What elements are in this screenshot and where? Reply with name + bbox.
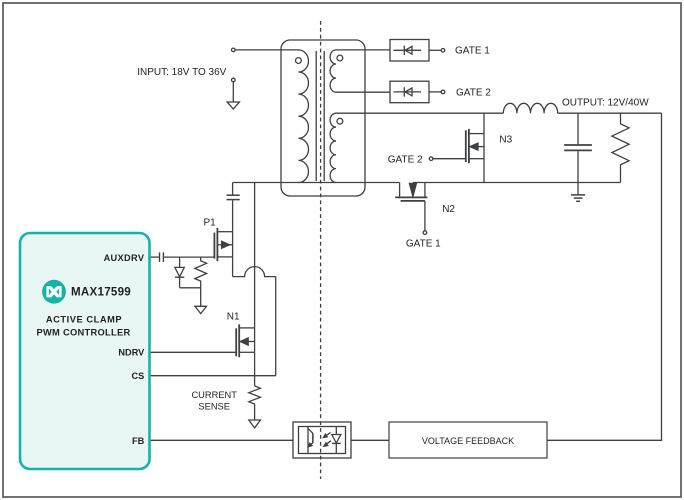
- svg-text:PWM CONTROLLER: PWM CONTROLLER: [36, 328, 130, 338]
- svg-text:AUXDRV: AUXDRV: [104, 253, 145, 263]
- transistor N2 (sync rectifier, rotated): [399, 183, 401, 197]
- wire: AUXDRV to P1 gate: [164, 256, 214, 258]
- wire: secondary2 top rail to inductor: [336, 112, 503, 114]
- svg-text:N3: N3: [499, 134, 512, 145]
- primary polarity dot: [296, 58, 302, 64]
- svg-text:FB: FB: [132, 436, 145, 446]
- wire: FB to optocoupler: [150, 439, 294, 441]
- transformer secondary winding 1: [330, 50, 336, 92]
- wire: hop down to CS node: [275, 277, 277, 376]
- transistor N1 (main switch): [239, 327, 254, 329]
- wire: N2 gate lead: [424, 201, 426, 231]
- input terminal: [232, 48, 236, 52]
- secondary1 polarity dot: [337, 55, 343, 61]
- wire: gate driver 2 to terminal: [429, 91, 441, 93]
- ground (input): [227, 102, 239, 109]
- ground (output, earth style): [571, 194, 585, 196]
- diode D1 in gate driver 1: [394, 49, 422, 51]
- diode D2 in gate driver 2: [394, 91, 422, 93]
- GATE 2 terminal: [441, 90, 445, 94]
- secondary2 polarity dot: [337, 118, 343, 124]
- wire: feedback loop right side down to voltage feedback: [547, 113, 662, 440]
- transformer primary winding: [299, 50, 309, 183]
- transformer T1 outline: [281, 40, 365, 196]
- svg-text:P1: P1: [204, 217, 217, 228]
- isolation boundary (dashed): [320, 21, 322, 479]
- wire: gate driver 1 to terminal: [429, 49, 441, 51]
- wire: P1 source with hop over N1 drain line: [233, 267, 276, 277]
- svg-text:INPUT: 18V TO 36V: INPUT: 18V TO 36V: [137, 67, 226, 78]
- svg-text:N1: N1: [227, 311, 240, 322]
- GATE 1 terminal: [441, 49, 445, 53]
- wire: inductor to output corner: [558, 112, 662, 114]
- svg-text:CURRENT: CURRENT: [191, 390, 237, 400]
- svg-text:GATE 1: GATE 1: [455, 46, 490, 57]
- svg-text:NDRV: NDRV: [118, 348, 145, 358]
- svg-text:OUTPUT: 12V/40W: OUTPUT: 12V/40W: [562, 97, 649, 108]
- svg-text:VOLTAGE FEEDBACK: VOLTAGE FEEDBACK: [422, 436, 514, 446]
- wire: CS line: [150, 375, 276, 377]
- inductor L1: [503, 103, 557, 113]
- diode D3: [179, 257, 181, 267]
- wire: optocoupler to voltage feedback box: [351, 439, 389, 441]
- transformer core bars: [315, 51, 317, 181]
- svg-text:ACTIVE CLAMP: ACTIVE CLAMP: [46, 315, 122, 325]
- wire: N1 drain up to primary rail: [254, 183, 256, 328]
- resistor R-load: [612, 113, 629, 182]
- capacitor C2 (AUXDRV coupling): [150, 256, 159, 258]
- resistor R2 (current sense): [249, 386, 261, 420]
- svg-text:GATE 2: GATE 2: [388, 155, 423, 166]
- svg-text:SENSE: SENSE: [198, 402, 230, 412]
- ground (current sense): [249, 420, 261, 428]
- wire: NDRV to N1 gate: [150, 351, 237, 353]
- voltage feedback block: [389, 422, 547, 458]
- gate driver box 2: [390, 81, 429, 103]
- input ground terminal: [232, 78, 236, 82]
- wire: bottom rail right of N2: [413, 182, 621, 184]
- transistor P1 (active clamp): [217, 231, 232, 233]
- svg-text:GATE 1: GATE 1: [406, 239, 441, 250]
- capacitor C-out: [577, 113, 579, 144]
- Maxim logo: [42, 280, 66, 304]
- wire: secondary1 bottom pin to gate driver 2: [336, 91, 390, 93]
- wire: primary/secondary bottom rail left of N2: [233, 182, 400, 184]
- wire: N3 gate lead: [433, 158, 466, 160]
- wire: diode bottom to resistor bottom: [180, 287, 201, 289]
- ground (gate network): [195, 306, 207, 313]
- MAX17599 controller block: [20, 233, 150, 469]
- gate driver box 1: [390, 40, 429, 62]
- GATE 1 terminal (N2 gate): [423, 231, 427, 235]
- wire: input to primary top: [235, 49, 299, 51]
- transformer secondary winding 2: [330, 113, 336, 182]
- svg-text:GATE 2: GATE 2: [456, 88, 491, 99]
- resistor R1 (P1 gate): [195, 257, 207, 306]
- svg-text:MAX17599: MAX17599: [71, 285, 131, 298]
- svg-text:CS: CS: [132, 371, 145, 381]
- transistor N3 (sync rectifier): [483, 113, 485, 133]
- GATE 2 terminal (N3 gate): [429, 157, 433, 161]
- optocoupler U2: [293, 422, 351, 458]
- svg-text:N2: N2: [442, 204, 455, 215]
- wire: secondary1 top pin to gate driver 1: [336, 49, 390, 51]
- clamp capacitor C1: [232, 183, 234, 195]
- wire: input ground stem: [232, 82, 234, 102]
